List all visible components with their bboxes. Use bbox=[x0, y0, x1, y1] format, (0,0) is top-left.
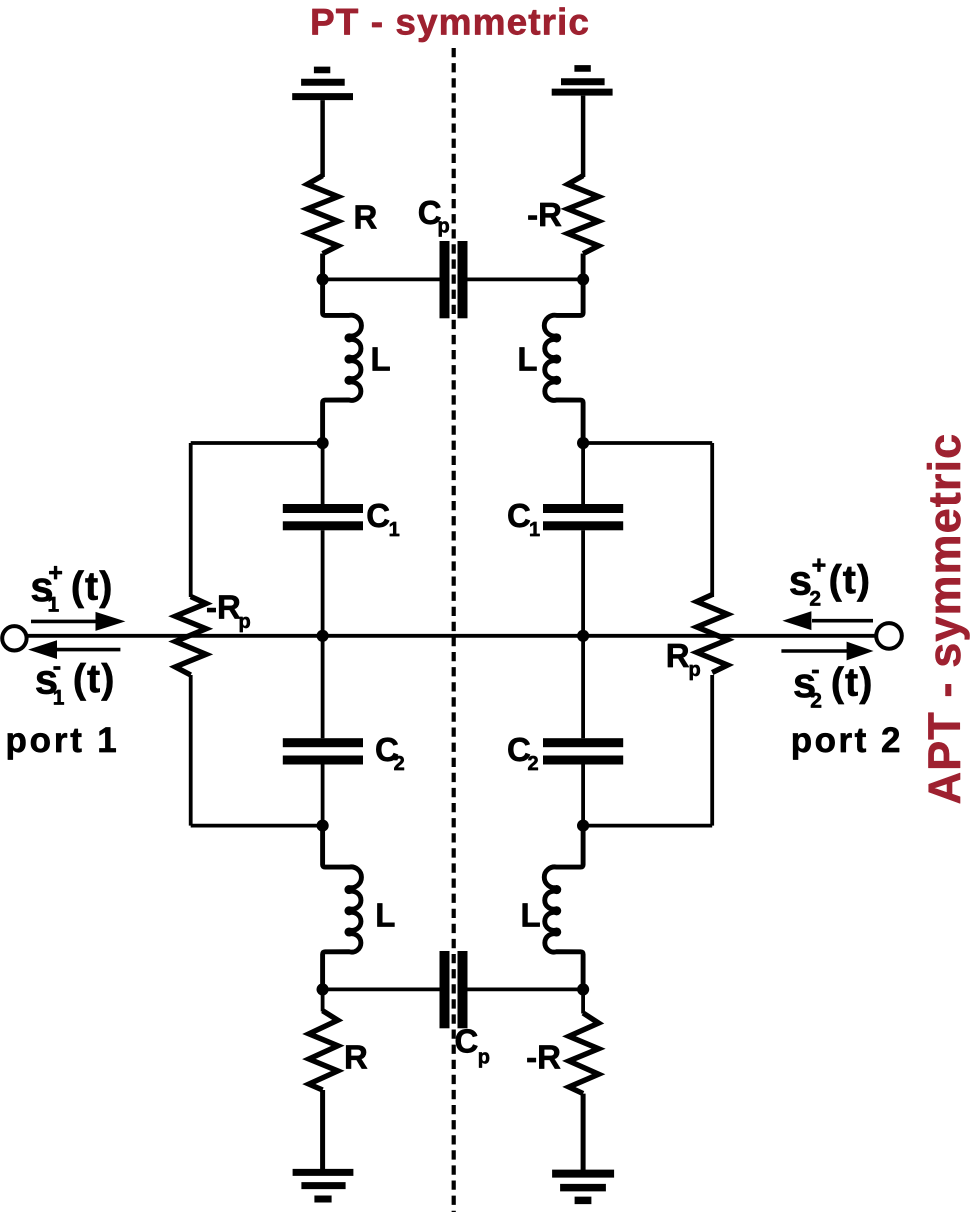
junction node (left rail / -Rp loop top) bbox=[317, 437, 329, 449]
svg-text:Cp: Cp bbox=[455, 1022, 491, 1068]
svg-text:s-1(t): s-1(t) bbox=[35, 652, 116, 709]
wire bottom left R to ground bbox=[320, 1090, 325, 1170]
resistor R (bottom left) bbox=[309, 1011, 338, 1090]
junction node (right rail / top Cp wire) bbox=[577, 273, 589, 285]
svg-text:C2: C2 bbox=[375, 731, 405, 775]
svg-text:-Rp: -Rp bbox=[206, 589, 251, 634]
wire left loop bottom horizontal bbox=[191, 824, 323, 828]
svg-text:L: L bbox=[371, 340, 391, 377]
junction node (left rail / bottom Cp wire) bbox=[317, 983, 329, 995]
port 2 terminal circle bbox=[876, 623, 902, 649]
resistor R (top left) bbox=[307, 176, 338, 254]
wire right loop vertical upper bbox=[710, 443, 714, 597]
wire left loop vertical lower bbox=[189, 675, 193, 826]
junction node (right rail / middle wire) bbox=[577, 630, 589, 642]
svg-text:s+1(t): s+1(t) bbox=[30, 559, 113, 616]
svg-text:L: L bbox=[375, 897, 395, 934]
port 1 terminal circle bbox=[2, 626, 26, 650]
svg-text:R: R bbox=[344, 1038, 368, 1075]
svg-text:Cp: Cp bbox=[418, 194, 450, 238]
ground (top right, inverted) bbox=[552, 68, 613, 92]
junction node (right rail / Rp loop top) bbox=[577, 437, 589, 449]
svg-text:-R: -R bbox=[527, 196, 562, 233]
wire right rail C2 to bottom node bbox=[581, 765, 585, 826]
wire bottom horizontal right (Cp to node) bbox=[468, 988, 584, 992]
ground (bottom right) bbox=[552, 1174, 614, 1201]
wire left rail R to inductor bbox=[321, 254, 325, 316]
inductor L (top left) bbox=[323, 254, 362, 443]
wire left rail C2 to bottom node bbox=[321, 765, 325, 826]
port 1 incident arrow bbox=[31, 612, 125, 631]
capacitor C1 (left) bbox=[283, 504, 363, 530]
capacitor C1 (right) bbox=[543, 504, 623, 530]
capacitor Cp (bottom) bbox=[440, 951, 468, 1028]
wire left loop vertical upper bbox=[189, 443, 193, 597]
wire left rail inductor to C1 bbox=[321, 443, 325, 504]
resistor -R (bottom right) bbox=[569, 1013, 599, 1094]
junction node (right rail / Rp loop bottom) bbox=[577, 820, 589, 832]
resistor -Rp (left) bbox=[175, 597, 206, 676]
wire right rail -R to inductor bbox=[581, 254, 585, 316]
svg-text:port 1: port 1 bbox=[6, 721, 120, 760]
wire right rail C1 to C2 (crosses middle wire) bbox=[581, 530, 585, 738]
wire left rail C1 to C2 (crosses middle wire) bbox=[321, 530, 325, 738]
port 1 reflected arrow bbox=[28, 640, 120, 659]
svg-text:L: L bbox=[521, 897, 541, 934]
junction node (left rail / middle wire) bbox=[317, 630, 329, 642]
svg-text:port 2: port 2 bbox=[791, 721, 903, 760]
inductor L (top right) bbox=[544, 254, 583, 443]
capacitor Cp (top) bbox=[440, 241, 468, 318]
inductor L (bottom left) bbox=[323, 826, 362, 990]
wire top horizontal right (Cp to node) bbox=[468, 277, 584, 281]
junction node (left rail / -Rp loop bottom) bbox=[317, 820, 329, 832]
junction node (right rail / bottom Cp wire) bbox=[577, 983, 589, 995]
wire right rail inductor to C1 bbox=[581, 443, 585, 504]
wire right rail node to bottom -R bbox=[581, 989, 585, 1013]
wire top horizontal left (node to Cp) bbox=[323, 277, 440, 281]
ground (top left, inverted) bbox=[292, 70, 353, 97]
wire left loop top horizontal bbox=[191, 441, 323, 445]
svg-text:C1: C1 bbox=[366, 497, 399, 541]
svg-text:-R: -R bbox=[526, 1038, 561, 1075]
wire top-left ground to R bbox=[320, 100, 325, 177]
svg-text:PT - symmetric: PT - symmetric bbox=[310, 2, 590, 43]
capacitor C2 (left) bbox=[283, 738, 363, 764]
svg-text:s+2(t): s+2(t) bbox=[789, 552, 871, 611]
wire bottom right -R to ground bbox=[581, 1094, 586, 1170]
capacitor C2 (right) bbox=[543, 738, 623, 764]
wire right loop top horizontal bbox=[583, 441, 712, 445]
port 2 incident arrow bbox=[782, 611, 873, 630]
wire left rail node to bottom R bbox=[321, 989, 325, 1011]
svg-text:C2: C2 bbox=[507, 731, 539, 775]
wire right loop bottom horizontal bbox=[583, 824, 712, 828]
axis of symmetry (dashed line) bbox=[452, 48, 456, 1212]
inductor L (bottom right) bbox=[544, 826, 583, 990]
resistor Rp (right) bbox=[697, 595, 728, 673]
svg-text:APT - symmetric: APT - symmetric bbox=[919, 433, 970, 805]
wire bottom horizontal left (node to Cp) bbox=[323, 988, 440, 992]
svg-text:C1: C1 bbox=[507, 497, 540, 541]
resistor -R (top right) bbox=[568, 176, 599, 254]
wire top-right ground to -R bbox=[581, 96, 586, 177]
svg-text:L: L bbox=[517, 340, 537, 377]
ground (bottom left) bbox=[293, 1172, 354, 1199]
svg-text:R: R bbox=[354, 199, 378, 236]
wire right loop vertical lower bbox=[710, 675, 714, 826]
port 2 reflected arrow bbox=[781, 642, 873, 661]
junction node (left rail / top Cp wire) bbox=[317, 273, 329, 285]
svg-text:Rp: Rp bbox=[666, 637, 701, 681]
wire middle horizontal bbox=[28, 634, 877, 638]
svg-text:s-2(t): s-2(t) bbox=[793, 656, 873, 713]
